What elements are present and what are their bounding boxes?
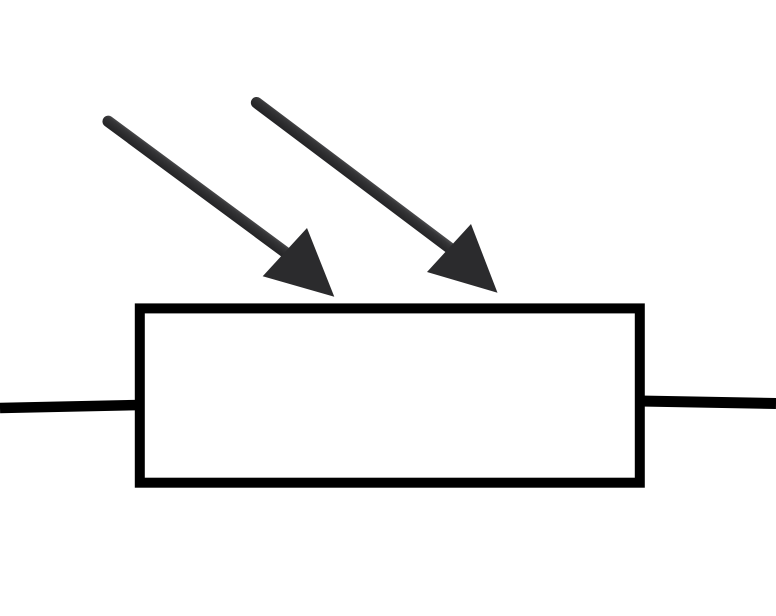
light arrow 2 shaft [257, 103, 455, 252]
light arrow 2 head [427, 224, 498, 293]
wire left lead [0, 405, 140, 408]
light arrow 1 shaft [108, 121, 293, 258]
light arrow 1 head [263, 228, 335, 297]
wire right lead [640, 401, 776, 404]
photoresistor LDR1 body [140, 308, 640, 482]
